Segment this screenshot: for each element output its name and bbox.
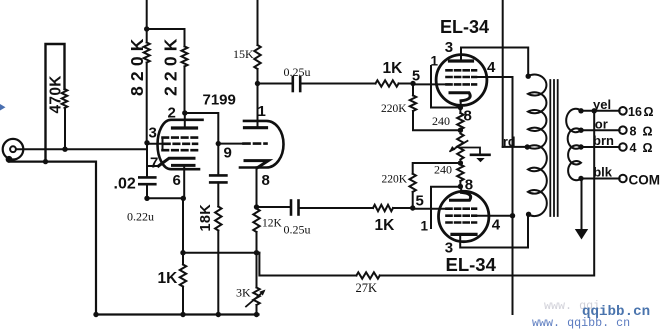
svg-text:1K: 1K — [383, 60, 404, 77]
resistor R-240 top — [457, 113, 463, 130]
wire grid2 entry — [218, 143, 243, 145]
node grid2 — [216, 141, 221, 146]
wire pin2 lead — [184, 113, 186, 128]
grid tie bar — [162, 138, 164, 151]
wire branch to 220K — [147, 29, 185, 46]
svg-text:1: 1 — [258, 103, 266, 120]
wire B+ 15K drop — [257, 0, 259, 45]
wire 220K bottom return — [413, 163, 461, 174]
svg-text:7199: 7199 — [203, 92, 236, 109]
svg-text:220K: 220K — [382, 174, 408, 186]
terminal COM — [619, 175, 627, 183]
svg-text:820K: 820K — [127, 33, 147, 96]
resistor R-12K — [253, 209, 259, 233]
input jack J1 — [3, 139, 24, 160]
svg-text:15K: 15K — [233, 47, 254, 61]
node pin2 plate — [182, 110, 187, 115]
svg-text:or: or — [595, 117, 608, 132]
svg-text:7: 7 — [150, 155, 158, 172]
svg-text:470K: 470K — [47, 75, 64, 114]
wire 220K top return — [413, 111, 460, 130]
svg-text:3K: 3K — [236, 286, 251, 300]
ground pot — [461, 148, 480, 154]
resistor R-1K cathode — [180, 265, 186, 287]
wire rd center tap — [503, 146, 528, 148]
cathode bar t2 — [245, 161, 268, 168]
anode bar 7199p — [173, 126, 197, 129]
node pin6 junction — [181, 196, 186, 201]
secondary winding — [566, 109, 581, 180]
node 15K/plate — [255, 81, 260, 86]
svg-text:1K: 1K — [158, 270, 179, 287]
tube 7199 triode envelope — [240, 121, 284, 168]
svg-text:9: 9 — [224, 145, 232, 162]
svg-text:Ω: Ω — [644, 105, 654, 119]
wire feedback to 16ohm tap — [380, 111, 594, 276]
grid dashes 7199p — [163, 136, 198, 139]
svg-text:5: 5 — [412, 69, 420, 85]
node B+ branch — [144, 26, 149, 31]
node pin8 bottom — [458, 184, 463, 189]
svg-text:Ω: Ω — [643, 125, 653, 139]
node primary top — [526, 74, 531, 79]
svg-text:1K: 1K — [375, 217, 396, 234]
node pin8 top — [458, 105, 463, 110]
svg-text:3: 3 — [445, 39, 453, 56]
tap brn — [581, 146, 620, 148]
wire to bottom cap — [257, 206, 292, 208]
wire feedback — [259, 253, 356, 276]
wire 1K to grid — [399, 83, 413, 85]
tap yel — [581, 110, 620, 112]
wire cathode junction — [147, 197, 183, 199]
svg-text:27K: 27K — [356, 281, 378, 295]
resistor R-1K grid bottom — [373, 205, 393, 211]
node 470K-ground — [43, 159, 48, 164]
wire pin1 tie bottom — [431, 187, 460, 228]
node grid bottom EL34 — [410, 205, 415, 210]
wire input ground — [9, 162, 259, 315]
svg-text:blk: blk — [593, 165, 613, 180]
wire B+ left drop — [146, 0, 148, 43]
terminal 8 ohm — [619, 126, 627, 134]
svg-text:3: 3 — [445, 240, 453, 257]
node .02 bottom — [144, 196, 149, 201]
cathode top EL34 — [450, 93, 470, 101]
svg-text:5: 5 — [416, 193, 424, 210]
capacitor C-0.25u top — [291, 77, 294, 91]
wire cap to 1K bottom — [299, 207, 374, 209]
wire grid1 entry — [147, 143, 164, 145]
svg-text:4: 4 — [487, 59, 496, 76]
wire to top cap — [258, 83, 293, 85]
wire cap to 1K — [300, 83, 375, 85]
wire 1K to grid bottom — [393, 207, 413, 209]
node primary bottom — [526, 212, 531, 217]
wire down to 1K — [182, 198, 184, 252]
node 220K bottom return — [458, 160, 463, 165]
svg-text:www. qqibb. cn: www. qqibb. cn — [532, 316, 630, 330]
wire pin3 bottom to transformer — [460, 214, 528, 247]
blue edge mark — [0, 104, 6, 111]
node 220K top return — [458, 128, 463, 133]
resistor R-220K plate load — [182, 46, 188, 66]
wiper arrow — [450, 141, 467, 151]
node grid1 7199 — [144, 140, 149, 145]
svg-text:16: 16 — [628, 105, 642, 119]
tube 7199 pentode envelope — [158, 120, 203, 169]
resistor R-220K top — [412, 84, 414, 96]
resistor R-220K bottom — [412, 192, 414, 208]
node cathode t2/12K — [254, 204, 259, 209]
svg-text:4: 4 — [492, 217, 501, 234]
resistor R-1K grid top — [376, 80, 399, 86]
grid dashes top EL34 — [447, 69, 477, 72]
svg-text:EL-34: EL-34 — [440, 17, 489, 37]
svg-text:brn: brn — [593, 133, 614, 148]
resistor R-3K pot — [256, 253, 258, 288]
wire plate to grid2 — [185, 113, 219, 144]
tube EL34 top envelope — [436, 55, 487, 106]
terminal 4 ohm — [619, 143, 627, 151]
svg-text:1: 1 — [421, 219, 429, 234]
ground secondary — [581, 179, 583, 230]
resistor R-15K — [254, 45, 260, 69]
wire pin4 screen rail — [474, 77, 513, 314]
svg-text:0.22u: 0.22u — [127, 210, 154, 224]
svg-text:.02: .02 — [114, 176, 136, 193]
grid dashes t2 — [244, 142, 267, 145]
svg-text:8: 8 — [465, 177, 473, 194]
wire grid entry top EL34 — [413, 83, 450, 85]
svg-text:EL-34: EL-34 — [446, 254, 497, 275]
tap or — [581, 129, 620, 131]
primary winding lower — [528, 145, 547, 216]
wire cathode link — [183, 252, 259, 254]
potentiometer hum balance — [457, 134, 463, 160]
terminal 16 ohm — [619, 107, 627, 115]
wire 820K to grid node — [146, 63, 148, 143]
wire 220K to plate node — [184, 66, 186, 113]
svg-text:220K: 220K — [381, 103, 407, 115]
svg-text:220K: 220K — [160, 33, 180, 96]
svg-text:rd: rd — [503, 135, 516, 149]
svg-text:3: 3 — [149, 125, 157, 142]
cathode bottom EL34 — [451, 192, 471, 200]
wire pin8 lead t2 — [256, 167, 258, 207]
svg-text:0.25u: 0.25u — [284, 223, 311, 237]
resistor R-240 bottom — [457, 165, 463, 182]
wire input signal — [17, 148, 147, 150]
svg-text:240: 240 — [432, 114, 450, 128]
node bus corner — [93, 312, 98, 317]
svg-text:240: 240 — [434, 163, 452, 177]
svg-text:4: 4 — [630, 141, 637, 155]
node grid top EL34 — [410, 81, 415, 86]
svg-text:2: 2 — [168, 105, 176, 122]
capacitor C-.02 — [139, 176, 155, 179]
svg-text:COM: COM — [629, 173, 661, 188]
3K wiper arrow — [246, 292, 264, 307]
svg-text:8: 8 — [464, 108, 472, 125]
primary winding — [528, 75, 546, 149]
svg-text:Ω: Ω — [643, 141, 653, 155]
capacitor C-0.25u bottom — [290, 201, 293, 215]
wire pin7 — [147, 165, 159, 167]
svg-text:12K: 12K — [262, 218, 283, 230]
cathode bar 7199p — [159, 158, 195, 166]
tap blk — [581, 178, 620, 180]
svg-text:6: 6 — [173, 172, 181, 189]
wire pin6 lead — [183, 165, 185, 198]
svg-text:0.25u: 0.25u — [284, 65, 311, 79]
wire grid entry bottom EL34 — [413, 208, 450, 210]
capacitor C-0.22u — [210, 174, 226, 177]
anode bar t2 — [245, 126, 267, 129]
resistor R-820K — [144, 43, 150, 63]
svg-text:18K: 18K — [198, 204, 214, 232]
node cathode feedback — [180, 250, 185, 255]
wire B+ center drop — [502, 0, 504, 147]
tube EL34 bottom envelope — [439, 191, 489, 241]
wire 470K top loop — [46, 44, 65, 162]
wire pin4 bottom — [474, 215, 513, 217]
grid dashes bottom EL34 — [447, 207, 477, 210]
node pin4 rail — [510, 213, 515, 218]
resistor R-470K — [64, 108, 66, 149]
svg-text:8: 8 — [262, 172, 270, 189]
anode bar top EL34 — [450, 59, 473, 62]
anode bar bottom EL34 — [452, 233, 476, 236]
resistor R-27K — [356, 272, 379, 278]
node 470K-signal — [62, 147, 67, 152]
svg-text:8: 8 — [630, 125, 637, 139]
core — [549, 80, 551, 216]
node feedback tap — [592, 108, 597, 113]
wire pin1 tie top — [431, 66, 460, 108]
beam plate bar 7199p — [173, 164, 195, 167]
wire pin3 to transformer — [461, 48, 528, 77]
wire plate lead t2 — [257, 84, 259, 128]
resistor R-18K — [215, 207, 221, 231]
node primary CT — [525, 144, 530, 149]
wire pin7 column — [146, 143, 148, 178]
